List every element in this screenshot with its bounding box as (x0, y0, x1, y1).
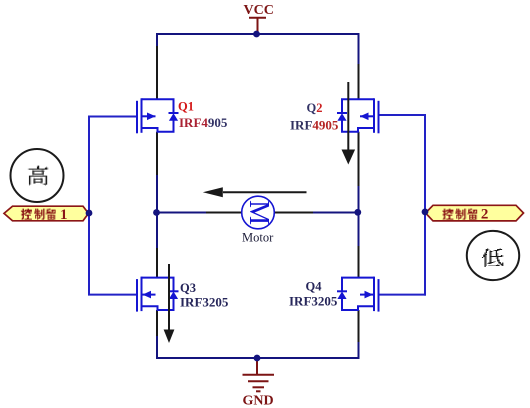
text 低 (low) (482, 248, 503, 267)
transistor Q3 (137, 277, 179, 312)
wire: Q1 drain from top rail (156, 33, 158, 46)
svg-text:M: M (243, 200, 274, 225)
svg-text:GND: GND (243, 394, 274, 408)
wire: motor lead right (274, 212, 313, 214)
current arrow down (through Q3) (168, 264, 170, 330)
current arrow left (motor direction) (223, 191, 307, 193)
wire: motor lead left (206, 212, 243, 214)
flag1 text 控 (21, 209, 32, 220)
flag2 text 控 (442, 209, 453, 220)
svg-text:Q3: Q3 (180, 281, 196, 295)
transistor Q4 (337, 277, 379, 312)
flag1 text 制 (34, 209, 45, 220)
wire: mid rail right (node B) (313, 212, 358, 214)
flag1 text 留 (46, 209, 56, 221)
node marker circle LOW (467, 231, 519, 280)
wire: right gate bus (Q2/Q4 gates) (424, 115, 426, 296)
net label flag 控制留1 (left) (4, 206, 89, 221)
VCC power symbol (249, 18, 266, 34)
junction: node right mid (354, 209, 361, 216)
svg-text:IRF3205: IRF3205 (180, 295, 229, 310)
wire: top rail VCC (156, 33, 360, 35)
current arrow down (through Q2) (347, 82, 349, 151)
svg-text:VCC: VCC (244, 3, 274, 18)
svg-text:Q2: Q2 (307, 101, 323, 115)
wire: Q2 drain from top rail (358, 33, 360, 64)
svg-text:IRF4905: IRF4905 (179, 115, 228, 130)
svg-text:2: 2 (481, 207, 489, 223)
wire: Q3 source to bottom rail (156, 310, 158, 336)
svg-text:IRF3205: IRF3205 (289, 294, 338, 309)
junction: VCC node (253, 31, 260, 38)
junction: node left gate (86, 210, 93, 217)
wire: mid rail to Q4 drain (358, 212, 360, 246)
wire: Q4 source to bottom rail (358, 310, 360, 342)
transistor Q1 (137, 98, 179, 133)
svg-text:Q4: Q4 (306, 280, 323, 294)
flag2 text 留 (467, 209, 477, 221)
flag2 text 制 (455, 209, 466, 220)
wire: bottom rail GND (156, 357, 360, 359)
wire: Q2 source to mid rail (358, 132, 360, 186)
junction: GND node (254, 355, 261, 362)
net label flag 控制留2 (right) (426, 205, 524, 221)
svg-text:Motor: Motor (242, 231, 274, 245)
motor circle (242, 196, 275, 229)
junction: node right gate (422, 209, 429, 216)
ground (243, 358, 275, 391)
junction: node left mid (153, 209, 160, 216)
svg-text:IRF4905: IRF4905 (290, 118, 339, 133)
wire: mid rail left (node A) (156, 212, 206, 214)
wire: left gate bus (Q1/Q3 gates) (88, 117, 90, 296)
transistor Q2 (337, 98, 379, 133)
svg-text:Q1: Q1 (178, 100, 194, 114)
svg-text:1: 1 (60, 207, 68, 223)
node marker circle HIGH (11, 149, 64, 202)
wire: Q1 source to mid rail (156, 132, 158, 175)
wire: mid rail to Q3 drain (156, 212, 158, 248)
text 高 (high) (28, 166, 49, 186)
